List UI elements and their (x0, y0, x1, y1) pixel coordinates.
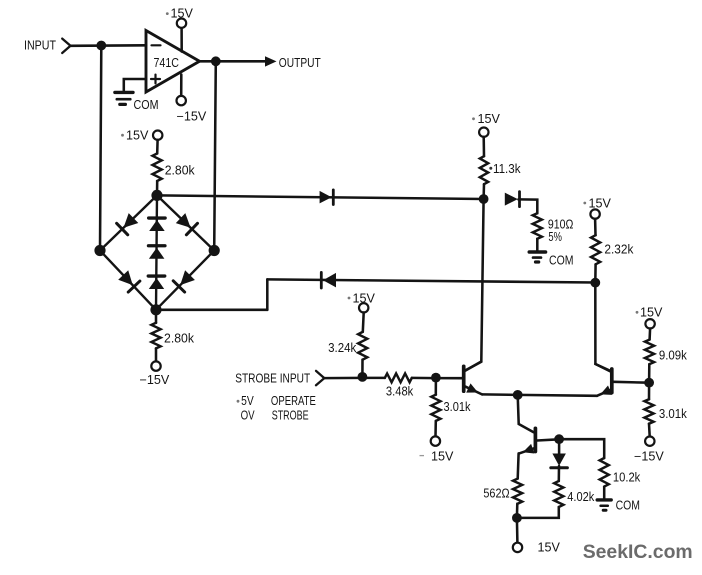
resistor R3 910 ohm (533, 213, 542, 239)
wire strobe arrow to node1 (324, 377, 362, 380)
wire common node down to Q3 collector (518, 395, 534, 432)
op-amp plus sign (151, 75, 160, 84)
wire R1 to bridge top node (156, 181, 159, 195)
node Q3 base junction (554, 434, 564, 444)
svg-text:COM: COM (616, 498, 640, 513)
resistor R4 11.3k (480, 156, 488, 184)
op-amp U1 741C triangle (146, 31, 200, 93)
svg-text:OPERATE: OPERATE (271, 393, 316, 408)
label +15V (above R1) (121, 128, 149, 142)
ground COM below 10.2k (597, 500, 611, 510)
wire divider node to 3.01k (648, 383, 651, 400)
svg-text:SeekIC.com: SeekIC.com (583, 541, 693, 563)
wire op-amp V- stub (180, 75, 183, 97)
svg-text:OUTPUT: OUTPUT (279, 55, 321, 70)
svg-text:15V: 15V (538, 541, 561, 555)
wire 3.01k to -15V terminal (648, 424, 651, 437)
wire D11 to 4.02k (558, 466, 561, 481)
wire bridge top node to 11.3k node (157, 195, 484, 199)
wire bridge bottom to step corner (156, 309, 267, 312)
wire step corner vertical (266, 279, 269, 309)
svg-text:741C: 741C (154, 55, 180, 70)
resistor R11 562 ohm (513, 479, 522, 504)
terminal +15V above 3.24k (359, 303, 368, 312)
resistor R10 3.01k (right) (644, 399, 653, 424)
transistor Q2 base bar (610, 369, 614, 393)
wire bridge bottom to R2 (155, 310, 158, 323)
wire 2.32k node down to Q2 collector (595, 283, 610, 372)
transistor Q1 emitter stroke (464, 386, 482, 395)
svg-text:2.80k: 2.80k (165, 163, 195, 178)
wire bridge edge top-left (100, 195, 157, 250)
wire input to op-amp inverting input (71, 44, 147, 47)
wire 10.2k to ground (603, 487, 606, 499)
svg-text:15V: 15V (171, 7, 194, 21)
label 741C (154, 55, 180, 70)
label 3.48k (386, 384, 414, 399)
diode D9 to 910 ohm (505, 192, 520, 207)
resistor R8 3.01k (strobe) (431, 395, 440, 421)
diode D4 bottom-right edge (right to bottom) (173, 270, 195, 292)
wire 910 ohm to ground (536, 239, 539, 251)
transistor Q3 emitter arrow (523, 444, 535, 454)
label COM (op-amp) (134, 97, 159, 112)
svg-text:−15V: −15V (177, 110, 207, 124)
terminal -15V below strobe 3.01k (431, 436, 440, 445)
wire op-amp noninverting input to ground (124, 79, 146, 91)
transistor Q2 collector stroke (595, 364, 611, 372)
label +15V (op-amp top) (166, 7, 194, 21)
node output junction (211, 56, 221, 66)
wire 3.24k to node1 (361, 360, 364, 377)
transistor Q2 emitter stroke (597, 389, 612, 395)
label 2.80k (R1) (165, 163, 195, 178)
node 11.3k junction (479, 194, 489, 204)
label 4.02k (567, 489, 594, 504)
label 15V (bottom) (538, 541, 561, 555)
node input junction (96, 41, 106, 51)
wire input node down to bridge left vertex (100, 46, 101, 251)
svg-text:15V: 15V (640, 306, 663, 320)
resistor R1 2.80k (153, 154, 162, 182)
label 9.09k (659, 347, 687, 362)
svg-text:2.80k: 2.80k (164, 331, 194, 346)
node strobe 2 (431, 373, 441, 383)
transistor Q1 emitter arrow (466, 383, 478, 392)
watermark SeekIC.com (583, 541, 693, 563)
wire bottom node to 15V terminal (516, 518, 519, 543)
node 2.32k junction (590, 278, 600, 288)
wire Q2 base to divider node (614, 381, 650, 384)
terminal +15V above 9.09k (645, 319, 654, 328)
wire node2 to Q1 base (436, 377, 462, 380)
diode D6 center string middle (148, 246, 165, 259)
node strobe 1 (358, 372, 368, 382)
resistor R12 4.02k (554, 481, 563, 507)
terminal op-amp +15V (177, 19, 186, 28)
wire 15V to 11.3k (482, 137, 485, 156)
wire node1 to 3.48k (362, 377, 384, 380)
svg-text:−15V: −15V (634, 449, 664, 463)
wire 11.3k node down to Q1 collector (465, 199, 483, 371)
terminal -15V below right 3.01k (645, 437, 654, 446)
svg-text:−15V: −15V (140, 373, 170, 387)
svg-text:STROBE: STROBE (272, 408, 309, 423)
svg-text:15V: 15V (589, 196, 612, 210)
svg-text:3.48k: 3.48k (386, 384, 414, 399)
wire 15V to 9.09k (648, 329, 651, 340)
wire step to 2.32k node (267, 279, 595, 282)
diode D11 at Q3 base (points down) (551, 454, 568, 468)
resistor R9 9.09k (645, 340, 654, 365)
label 562 ohm (483, 486, 509, 501)
label +15V (11.3k) (472, 112, 500, 126)
node bridge right (209, 245, 220, 256)
wire bridge edge top-right (157, 195, 214, 250)
label 11.3k (489, 161, 521, 176)
resistor R13 10.2k (600, 458, 609, 487)
wire bridge edge bottom-right (156, 251, 214, 310)
svg-text:3.24k: 3.24k (328, 340, 357, 355)
output arrowhead (265, 56, 277, 66)
svg-text:9.09k: 9.09k (659, 347, 687, 362)
label 5V OPERATE (237, 393, 317, 408)
label +15V (3.24k) (348, 291, 376, 305)
wire 11.3k to node (482, 184, 485, 199)
svg-text:OV: OV (241, 407, 255, 422)
label +15V (2.32k) (583, 196, 611, 210)
wire 3.01k to -15V terminal (434, 421, 437, 437)
wire bridge center string (156, 195, 157, 309)
svg-text:COM: COM (549, 252, 574, 267)
diode D7 center string lower (148, 276, 165, 289)
label INPUT (24, 38, 56, 53)
label STROBE INPUT (235, 371, 310, 386)
ground COM at op-amp (115, 92, 133, 104)
transistor Q1 collector stroke (464, 362, 482, 371)
transistor Q1 base bar (462, 366, 466, 391)
label 0V STROBE (241, 407, 309, 422)
wire op-amp V+ stub (180, 28, 183, 52)
label 3.24k (328, 340, 357, 355)
wire 4.02k to bottom node (517, 507, 559, 518)
wire output (200, 60, 266, 63)
wire Q1 emitter to common node (482, 393, 518, 396)
svg-text:15V: 15V (478, 112, 501, 126)
svg-text:STROBE INPUT: STROBE INPUT (235, 371, 310, 386)
label 3.01k (right) (659, 406, 687, 421)
wire 3.48k to node2 (412, 377, 436, 380)
ground COM below 910 ohm (529, 252, 545, 262)
svg-text:INPUT: INPUT (24, 38, 56, 53)
label -15V (below R2) (140, 373, 170, 387)
label 5% (548, 229, 562, 244)
terminal -15V below R2 (151, 361, 160, 370)
svg-text:10.2k: 10.2k (613, 469, 641, 484)
wire D9 to 910 ohm resistor (519, 199, 538, 213)
node 9.09k/3.01k divider (644, 378, 654, 388)
wire node2 to 3.01k (435, 378, 438, 395)
svg-text:4.02k: 4.02k (567, 489, 594, 504)
terminal +15V above 11.3k (479, 128, 488, 137)
transistor Q2 emitter arrow (600, 386, 612, 395)
svg-text:5V: 5V (241, 393, 254, 408)
svg-text:2.32k: 2.32k (604, 241, 633, 256)
wire common node to Q2 emitter (518, 394, 597, 397)
svg-text:15V: 15V (431, 449, 454, 463)
svg-text:15V: 15V (126, 128, 149, 142)
diode D10 on lower wire (points left) (321, 272, 336, 288)
label COM (910 ohm) (549, 252, 574, 267)
svg-text:3.01k: 3.01k (659, 406, 687, 421)
label -15V (op-amp bottom) (177, 110, 207, 124)
label COM (10.2k) (616, 498, 640, 513)
wire 15V to 2.32k (594, 219, 597, 235)
wire 562 ohm to bottom node (516, 504, 519, 518)
wire bridge edge bottom-left (100, 251, 156, 310)
resistor R2 2.80k (151, 323, 160, 349)
wire 2.32k to node (594, 264, 597, 282)
wire output node down to bridge right vertex (214, 61, 216, 250)
wire 15V to R1 (156, 140, 159, 154)
label 10.2k (613, 469, 641, 484)
transistor Q3 emitter stroke (519, 448, 535, 454)
strobe input arrow (316, 371, 324, 385)
node bridge top (151, 190, 162, 201)
resistor R7 3.48k (385, 374, 412, 383)
label 15V (below strobe 3.01k) (420, 449, 455, 463)
node bridge bottom (150, 304, 161, 315)
label +15V (9.09k) (636, 306, 663, 320)
terminal +15V above 2.32k (590, 209, 599, 218)
svg-text:3.01k: 3.01k (444, 399, 471, 414)
resistor R6 3.24k (358, 332, 367, 360)
label 910 ohm (548, 216, 574, 231)
diode D3 bottom-left edge (left to bottom) (118, 270, 140, 292)
wire node to diode D11 (558, 439, 561, 453)
svg-text:5%: 5% (548, 229, 562, 244)
wire 9.09k to divider node (648, 364, 651, 383)
diode D8 on top wire (320, 190, 334, 205)
terminal 15V bottom (513, 543, 522, 552)
label 2.80k (R2) (164, 331, 194, 346)
op-amp minus sign (152, 44, 161, 46)
wire Q3 base to node (537, 439, 559, 440)
terminal +15V above R1 (153, 131, 162, 140)
node bottom junction (512, 513, 522, 523)
node bridge left (94, 245, 105, 256)
wire Q3 base node to 10.2k (559, 439, 604, 458)
label 3.01k (strobe) (444, 399, 471, 414)
diode D2 top-right edge (top to right) (176, 213, 198, 235)
input terminal arrow (62, 39, 70, 53)
diode D1 top-left edge (top to left) (117, 213, 139, 235)
diode D5 center string upper (149, 218, 166, 231)
svg-text:COM: COM (134, 97, 159, 112)
label OUTPUT (279, 55, 321, 70)
wire 15V to 3.24k (362, 313, 365, 332)
label -15V (right) (634, 449, 664, 463)
svg-text:11.3k: 11.3k (493, 161, 521, 176)
label 2.32k (604, 241, 633, 256)
resistor R5 2.32k (591, 235, 600, 264)
wire Q3 emitter down to 562 ohm (516, 453, 519, 478)
wire R2 to -15V terminal (155, 348, 158, 361)
svg-text:562Ω: 562Ω (483, 486, 509, 501)
terminal op-amp -15V (177, 96, 186, 105)
node common emitters (513, 390, 523, 400)
transistor Q3 base bar (534, 428, 538, 451)
